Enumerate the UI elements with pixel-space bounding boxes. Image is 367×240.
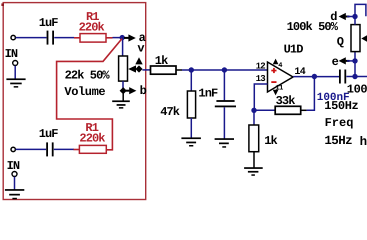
capacitor 1uF (upper)	[47, 31, 54, 45]
label 33k	[276, 94, 296, 108]
label h (partial)	[360, 135, 367, 149]
svg-text:1k: 1k	[264, 134, 277, 148]
label U1D	[284, 43, 304, 57]
label 1k (vertical)	[264, 134, 277, 148]
port circle (upper)	[13, 61, 18, 66]
label IN (lower)	[7, 159, 20, 173]
svg-text:47k: 47k	[160, 105, 180, 119]
label 100k 50%	[287, 20, 339, 34]
junction (output)	[312, 74, 317, 79]
label 47k	[160, 105, 180, 119]
svg-text:220k: 220k	[79, 20, 105, 34]
capacitor 1uF (lower)	[46, 142, 53, 156]
label Freq	[325, 116, 354, 130]
svg-text:22k 50%: 22k 50%	[65, 69, 111, 83]
label 150Hz	[324, 99, 358, 113]
resistor 47k (vertical)	[187, 70, 195, 138]
label 220k (lower)	[79, 131, 105, 145]
wire feedback	[307, 77, 315, 111]
svg-text:15Hz: 15Hz	[324, 134, 352, 148]
selection rectangle	[3, 3, 146, 200]
label R1 (upper)	[86, 10, 99, 24]
svg-text:d: d	[330, 10, 337, 24]
junction (1nF)	[222, 67, 227, 72]
node e flag	[332, 55, 358, 69]
wire	[16, 37, 47, 39]
wire	[122, 81, 124, 91]
potentiometer Volume 22k	[119, 56, 136, 81]
svg-text:U1D: U1D	[284, 43, 304, 57]
svg-text:150Hz: 150Hz	[324, 99, 358, 113]
resistor R1 (upper, selected)	[74, 34, 113, 43]
svg-text:12: 12	[256, 62, 266, 72]
pin 13	[256, 74, 266, 84]
selection handle	[1, 3, 4, 6]
junction (cap out)	[352, 74, 357, 79]
op-amp U1D	[268, 59, 294, 96]
label 1nF	[198, 86, 218, 100]
svg-text:1nF: 1nF	[198, 86, 218, 100]
label IN (upper)	[5, 47, 18, 61]
svg-text:v: v	[137, 42, 144, 56]
pin 12	[256, 62, 266, 72]
label 15Hz	[324, 134, 352, 148]
wire	[14, 66, 16, 79]
capacitor 100nF	[339, 70, 355, 84]
ground (volume pot)	[112, 100, 130, 108]
svg-text:Volume: Volume	[64, 85, 105, 99]
wire	[254, 109, 275, 111]
wire main	[182, 69, 268, 71]
red wire (pending connection)	[57, 39, 122, 150]
label 100	[347, 83, 367, 97]
node d flag	[330, 10, 357, 24]
wire	[354, 52, 356, 61]
resistor 33k	[275, 106, 306, 114]
input terminal (upper IN)	[11, 35, 15, 39]
svg-text:100: 100	[347, 83, 367, 97]
wire	[122, 91, 124, 101]
wire	[16, 148, 46, 150]
svg-text:1uF: 1uF	[39, 16, 59, 30]
svg-text:Freq: Freq	[325, 116, 354, 130]
svg-text:220k: 220k	[79, 131, 105, 145]
wire	[355, 76, 367, 78]
node v flag	[135, 42, 144, 73]
wire output	[293, 76, 340, 78]
label 100nF	[317, 92, 350, 104]
label Volume	[64, 85, 105, 99]
svg-text:IN: IN	[5, 47, 18, 61]
wire	[142, 69, 150, 71]
wire	[355, 4, 366, 24]
wire	[54, 37, 74, 39]
ground (upper IN)	[6, 78, 25, 87]
wire	[354, 61, 356, 77]
label 1uF (lower)	[39, 127, 59, 141]
svg-text:h: h	[360, 135, 367, 149]
wire	[122, 38, 124, 57]
capacitor 1nF	[215, 70, 236, 139]
potentiometer Q 100k	[351, 25, 367, 52]
label 220k (upper)	[79, 20, 105, 34]
label 1k (horizontal)	[155, 54, 168, 68]
resistor R1 (lower, selected)	[74, 145, 107, 153]
ground (lower IN)	[5, 189, 24, 199]
node a junction	[120, 35, 125, 40]
svg-text:11: 11	[275, 85, 283, 93]
label R1 (lower)	[85, 121, 98, 135]
junction (47k)	[189, 67, 194, 72]
svg-text:1k: 1k	[155, 54, 168, 68]
svg-text:33k: 33k	[276, 94, 296, 108]
input terminal (lower IN)	[11, 147, 15, 151]
label Q	[337, 35, 344, 49]
junction (pin13 node)	[251, 108, 256, 113]
ground (1k)	[244, 167, 263, 176]
resistor 1k (horizontal)	[151, 66, 183, 74]
resistor 1k (vertical)	[249, 110, 259, 168]
label 22k 50%	[65, 69, 111, 83]
port circle (lower)	[12, 172, 17, 177]
svg-text:e: e	[332, 55, 339, 69]
label 1uF	[39, 16, 59, 30]
wire	[113, 37, 123, 39]
wire pin13	[254, 84, 267, 110]
node flag a	[124, 31, 146, 45]
ground (47k)	[181, 137, 201, 146]
svg-text:Q: Q	[337, 35, 344, 49]
node b flag	[120, 84, 147, 98]
svg-text:1uF: 1uF	[39, 127, 59, 141]
pin 14	[294, 67, 305, 78]
svg-text:13: 13	[256, 74, 266, 84]
svg-text:b: b	[140, 84, 147, 98]
svg-text:4: 4	[278, 62, 282, 70]
wire	[54, 148, 74, 150]
ground (1nF)	[215, 138, 234, 148]
wire	[14, 177, 16, 190]
